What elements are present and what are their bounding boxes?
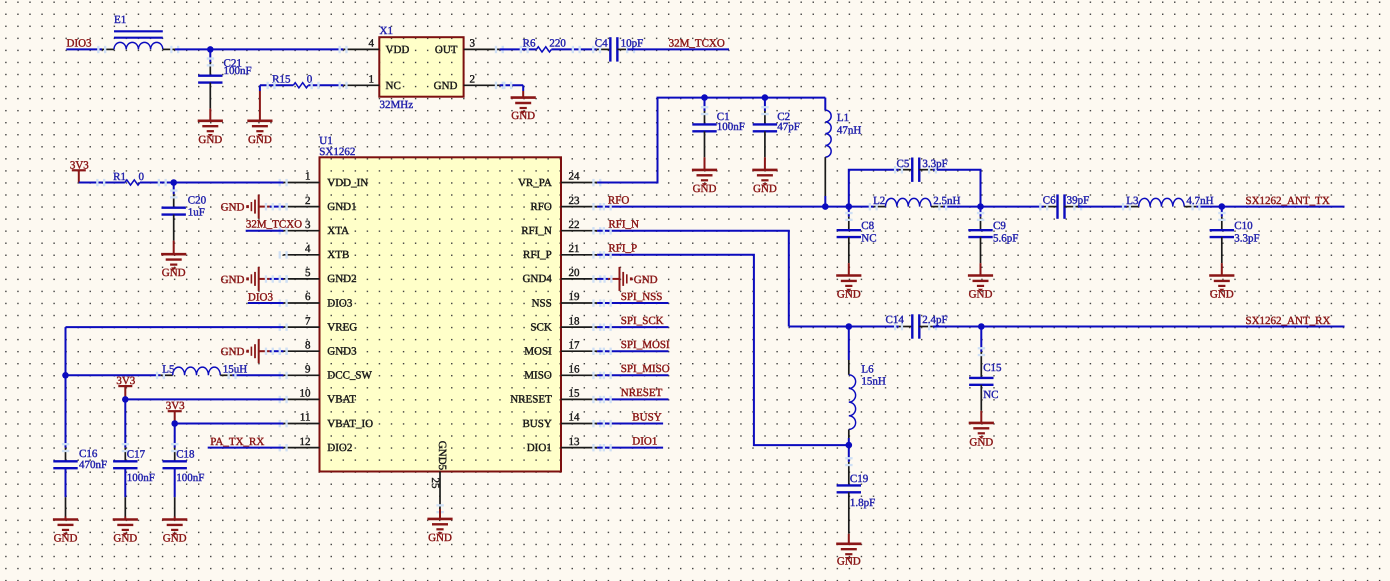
wire bbox=[824, 157, 826, 196]
svg-text:21: 21 bbox=[569, 243, 580, 255]
capacitor C15 bbox=[980, 352, 982, 378]
svg-text:DIO2: DIO2 bbox=[327, 442, 352, 454]
wire BUSY bbox=[597, 423, 663, 425]
ground bbox=[704, 157, 706, 170]
wire bbox=[65, 447, 67, 449]
svg-text:SPI_MOSI: SPI_MOSI bbox=[621, 339, 670, 351]
svg-text:GND5: GND5 bbox=[436, 441, 448, 471]
capacitor C20 bbox=[173, 194, 175, 208]
pin 1 VDD_IN bbox=[283, 182, 319, 184]
wire R15 net right bbox=[308, 84, 343, 86]
wire RFO rail bbox=[597, 206, 873, 208]
junction bbox=[62, 372, 69, 379]
IC U1 body bbox=[320, 157, 562, 471]
svg-text:VBAT: VBAT bbox=[327, 394, 356, 406]
svg-text:SX1262: SX1262 bbox=[319, 146, 355, 158]
wire bbox=[980, 207, 982, 217]
svg-text:XTA: XTA bbox=[327, 225, 349, 237]
junction bbox=[846, 323, 853, 330]
ground bbox=[259, 85, 261, 91]
wire bbox=[1221, 207, 1223, 217]
capacitor C21 bbox=[209, 62, 211, 75]
svg-text:GND: GND bbox=[428, 532, 452, 544]
svg-text:16: 16 bbox=[569, 364, 581, 376]
svg-text:RFI_P: RFI_P bbox=[608, 243, 637, 255]
pin 13 DIO1 bbox=[561, 447, 597, 449]
svg-text:VDD_IN: VDD_IN bbox=[327, 177, 368, 189]
svg-text:22: 22 bbox=[569, 219, 580, 231]
svg-text:SPI_MISO: SPI_MISO bbox=[621, 363, 670, 375]
wire C5 right bbox=[933, 170, 981, 207]
svg-text:L5: L5 bbox=[162, 364, 175, 376]
inductor L3 bbox=[1127, 206, 1139, 208]
svg-text:SX1262_ANT_TX: SX1262_ANT_TX bbox=[1246, 195, 1330, 207]
pin 20 GND4 bbox=[561, 278, 597, 280]
svg-text:L6: L6 bbox=[861, 364, 874, 376]
svg-text:DIO3: DIO3 bbox=[327, 297, 353, 309]
svg-text:VREG: VREG bbox=[327, 321, 357, 333]
wire bbox=[980, 327, 982, 352]
wire 3V3 to R1 bbox=[79, 182, 125, 184]
oscillator X1 bbox=[379, 37, 463, 96]
wire C6 to L3 bbox=[1078, 206, 1127, 208]
svg-text:13: 13 bbox=[569, 436, 581, 448]
svg-text:15: 15 bbox=[569, 388, 581, 400]
svg-text:C16: C16 bbox=[79, 448, 98, 460]
wire VREG rail down bbox=[65, 327, 67, 448]
svg-text:GND: GND bbox=[162, 267, 186, 279]
wire bbox=[175, 48, 343, 50]
svg-text:3.3pF: 3.3pF bbox=[922, 158, 947, 170]
svg-text:BUSY: BUSY bbox=[632, 411, 661, 423]
svg-text:GND: GND bbox=[837, 289, 861, 301]
pin 5 GND2 bbox=[283, 278, 319, 280]
svg-text:C4: C4 bbox=[595, 37, 608, 49]
capacitor C9 bbox=[980, 217, 982, 231]
svg-text:15uH: 15uH bbox=[223, 364, 248, 376]
svg-text:100nF: 100nF bbox=[224, 65, 252, 77]
wire bbox=[209, 49, 211, 62]
wire bbox=[848, 445, 850, 462]
wire 32M_TCXO net bbox=[500, 48, 537, 50]
wire RX rail left bbox=[789, 326, 899, 328]
svg-text:32M_TCXO: 32M_TCXO bbox=[246, 218, 302, 230]
ground (bar style) bbox=[270, 278, 284, 280]
svg-text:1uF: 1uF bbox=[188, 206, 205, 218]
wire NRESET bbox=[597, 398, 668, 400]
svg-text:C6: C6 bbox=[1043, 195, 1056, 207]
svg-text:GND4: GND4 bbox=[522, 273, 552, 285]
wire down to C18 bbox=[174, 424, 176, 448]
svg-text:C10: C10 bbox=[1234, 220, 1253, 232]
svg-text:R6: R6 bbox=[523, 38, 536, 50]
junction bbox=[701, 94, 708, 101]
wire R15 net bbox=[260, 84, 293, 86]
wire RFI_P bbox=[597, 255, 849, 445]
pin 4 XTB bbox=[283, 254, 319, 256]
ground (bar style) bbox=[597, 278, 608, 280]
svg-text:GND: GND bbox=[969, 436, 993, 448]
op-amp U1 SX1262 bbox=[320, 157, 562, 471]
svg-text:4: 4 bbox=[305, 243, 311, 255]
wire RX rail right bbox=[933, 326, 1345, 328]
junction bbox=[846, 203, 853, 210]
ground bbox=[65, 517, 67, 520]
svg-text:GND: GND bbox=[511, 110, 535, 122]
wire R1 to VDD_IN bbox=[140, 182, 284, 184]
wire DCC_SW bbox=[232, 374, 283, 376]
wire bbox=[627, 48, 729, 50]
wire VREG bbox=[66, 326, 284, 328]
svg-text:100nF: 100nF bbox=[176, 472, 204, 484]
svg-text:32MHz: 32MHz bbox=[380, 99, 414, 111]
svg-text:GND: GND bbox=[163, 532, 187, 544]
svg-text:47pF: 47pF bbox=[777, 121, 800, 133]
svg-text:PA_TX_RX: PA_TX_RX bbox=[210, 436, 264, 448]
wire bbox=[848, 207, 850, 217]
oscillator X1 body bbox=[379, 37, 463, 96]
capacitor C16 bbox=[65, 448, 67, 462]
svg-text:GND: GND bbox=[54, 532, 78, 544]
ground (bar style) bbox=[270, 206, 284, 208]
svg-text:GND: GND bbox=[221, 202, 245, 214]
capacitor C10 bbox=[1221, 217, 1223, 231]
junction bbox=[822, 203, 829, 210]
svg-text:10: 10 bbox=[300, 388, 312, 400]
ground bbox=[522, 85, 524, 91]
svg-text:5: 5 bbox=[305, 267, 311, 279]
capacitor C1 bbox=[704, 111, 706, 125]
svg-text:NRESET: NRESET bbox=[510, 394, 552, 406]
svg-text:GND: GND bbox=[837, 556, 861, 568]
capacitor C8 bbox=[848, 217, 850, 231]
junction bbox=[207, 46, 214, 53]
svg-text:VBAT_IO: VBAT_IO bbox=[327, 418, 373, 430]
pin 10 VBAT bbox=[283, 398, 319, 400]
svg-text:C5: C5 bbox=[897, 158, 910, 170]
svg-text:C15: C15 bbox=[983, 362, 1002, 374]
pin 3 OUT bbox=[464, 48, 500, 50]
svg-text:39pF: 39pF bbox=[1067, 195, 1090, 207]
svg-text:3: 3 bbox=[470, 38, 476, 50]
wire bbox=[848, 360, 850, 375]
pin 14 BUSY bbox=[561, 423, 597, 425]
ground bbox=[848, 534, 850, 544]
wire X1 pin2 to gnd bbox=[500, 84, 524, 86]
wire C5 left bbox=[849, 170, 899, 207]
wire to L5 bbox=[66, 374, 161, 376]
svg-text:2.4pF: 2.4pF bbox=[922, 314, 947, 326]
wire 32M_TCXO at XTA bbox=[246, 230, 284, 232]
resistor R1 bbox=[125, 180, 140, 185]
pin 2 GND bbox=[464, 84, 500, 86]
svg-text:11: 11 bbox=[300, 412, 311, 424]
capacitor C2 bbox=[764, 111, 766, 125]
svg-text:2: 2 bbox=[305, 195, 311, 207]
svg-text:NC: NC bbox=[386, 80, 401, 92]
svg-text:5.6pF: 5.6pF bbox=[993, 232, 1018, 244]
inductor L5 bbox=[161, 374, 173, 376]
wire to ANT_TX bbox=[1196, 206, 1344, 208]
svg-text:C18: C18 bbox=[176, 448, 195, 460]
svg-text:10pF: 10pF bbox=[621, 37, 644, 49]
pin 22 RFI_N bbox=[561, 230, 597, 232]
pin 9 DCC_SW bbox=[283, 374, 319, 376]
svg-text:NC: NC bbox=[861, 232, 876, 244]
pin 1 NC bbox=[343, 84, 379, 86]
capacitor C5 bbox=[899, 169, 913, 171]
svg-text:C8: C8 bbox=[861, 220, 874, 232]
svg-text:GND: GND bbox=[113, 532, 137, 544]
wire to L1 bbox=[824, 98, 826, 111]
svg-text:SX1262_ANT_RX: SX1262_ANT_RX bbox=[1246, 315, 1331, 327]
svg-text:8: 8 bbox=[305, 339, 311, 351]
wire to C4 bbox=[551, 48, 596, 50]
svg-text:19: 19 bbox=[569, 291, 581, 303]
svg-text:1: 1 bbox=[305, 171, 311, 183]
wire VBAT_IO bbox=[175, 423, 284, 425]
svg-text:47nH: 47nH bbox=[837, 125, 862, 137]
svg-text:GND3: GND3 bbox=[327, 346, 357, 358]
svg-text:4: 4 bbox=[369, 38, 375, 50]
svg-text:R1: R1 bbox=[113, 171, 126, 183]
svg-text:6: 6 bbox=[305, 291, 311, 303]
pin 8 GND3 bbox=[283, 350, 319, 352]
svg-text:3: 3 bbox=[305, 219, 311, 231]
svg-text:GND2: GND2 bbox=[327, 273, 356, 285]
svg-text:2.5nH: 2.5nH bbox=[933, 195, 960, 207]
svg-text:17: 17 bbox=[569, 339, 581, 351]
svg-text:NC: NC bbox=[983, 389, 998, 401]
ground bbox=[124, 517, 126, 520]
pin 21 RFI_P bbox=[561, 254, 597, 256]
wire bbox=[173, 183, 175, 195]
svg-text:GND: GND bbox=[434, 80, 458, 92]
wire bbox=[66, 48, 102, 50]
ground bbox=[1221, 263, 1223, 275]
capacitor C14 bbox=[899, 326, 913, 328]
svg-text:NSS: NSS bbox=[532, 297, 552, 309]
svg-text:RFI_N: RFI_N bbox=[521, 225, 552, 237]
svg-text:RFO: RFO bbox=[530, 201, 551, 213]
svg-text:DIO3: DIO3 bbox=[67, 38, 93, 50]
junction bbox=[171, 420, 178, 427]
ground bbox=[764, 157, 766, 170]
svg-text:24: 24 bbox=[569, 171, 581, 183]
inductor L6 bbox=[849, 375, 856, 430]
pin 2 GND1 bbox=[283, 206, 319, 208]
svg-text:DIO1: DIO1 bbox=[632, 435, 657, 447]
svg-text:SCK: SCK bbox=[530, 321, 551, 333]
svg-text:0: 0 bbox=[139, 171, 145, 183]
capacitor C17 bbox=[124, 448, 126, 462]
svg-text:VDD: VDD bbox=[386, 44, 410, 56]
ground bbox=[173, 241, 175, 255]
wire SPI_MISO bbox=[597, 374, 668, 376]
svg-text:DIO1: DIO1 bbox=[527, 442, 552, 454]
junction bbox=[846, 442, 853, 449]
svg-text:BUSY: BUSY bbox=[522, 418, 551, 430]
svg-text:SPI_NSS: SPI_NSS bbox=[621, 291, 663, 303]
svg-text:RFI_N: RFI_N bbox=[608, 218, 639, 230]
svg-text:DCC_SW: DCC_SW bbox=[327, 370, 372, 382]
svg-text:220: 220 bbox=[549, 38, 566, 50]
pin 25 GND5 bbox=[439, 472, 441, 510]
inductor L2 bbox=[874, 206, 886, 208]
junction bbox=[1219, 203, 1226, 210]
capacitor C19 bbox=[848, 462, 850, 486]
svg-text:20: 20 bbox=[569, 267, 581, 279]
junction bbox=[170, 179, 177, 186]
wire bbox=[848, 429, 850, 438]
pin 15 NRESET bbox=[561, 398, 597, 400]
svg-text:C20: C20 bbox=[188, 194, 207, 206]
svg-text:15nH: 15nH bbox=[861, 375, 886, 387]
wire VR_PA rail bbox=[597, 98, 825, 183]
svg-text:100nF: 100nF bbox=[717, 121, 745, 133]
svg-text:GND: GND bbox=[753, 183, 777, 195]
pin 4 VDD bbox=[343, 48, 379, 50]
inductor L1 bbox=[825, 110, 831, 157]
wire DIO1 bbox=[597, 447, 663, 449]
svg-text:SPI_SCK: SPI_SCK bbox=[621, 315, 664, 327]
svg-text:23: 23 bbox=[569, 195, 581, 207]
svg-text:GND: GND bbox=[221, 346, 245, 358]
ground bbox=[848, 263, 850, 275]
wire RFI_N bbox=[597, 231, 789, 327]
wire to L6 bbox=[848, 327, 850, 361]
svg-text:C14: C14 bbox=[886, 314, 905, 326]
wire bbox=[704, 98, 706, 111]
resistor R15 bbox=[293, 83, 308, 88]
svg-text:1.8pF: 1.8pF bbox=[850, 497, 875, 509]
svg-text:GND: GND bbox=[221, 274, 245, 286]
resistor R6 bbox=[536, 47, 551, 52]
ground bbox=[980, 411, 982, 423]
pin 12 DIO2 bbox=[283, 447, 319, 449]
wire down to C17 bbox=[124, 399, 126, 447]
capacitor C4 bbox=[597, 48, 611, 50]
svg-text:RFO: RFO bbox=[608, 194, 629, 206]
svg-text:4.7nH: 4.7nH bbox=[1186, 195, 1213, 207]
svg-text:3.3pF: 3.3pF bbox=[1234, 232, 1259, 244]
svg-text:C19: C19 bbox=[850, 473, 869, 485]
svg-text:470nF: 470nF bbox=[79, 459, 107, 471]
svg-text:32M_TCXO: 32M_TCXO bbox=[669, 37, 725, 49]
wire bbox=[764, 98, 766, 111]
pin 6 DIO3 bbox=[283, 302, 319, 304]
wire SPI_NSS bbox=[597, 302, 668, 304]
svg-text:NRESET: NRESET bbox=[621, 387, 663, 399]
svg-text:14: 14 bbox=[569, 412, 581, 424]
junction bbox=[977, 203, 984, 210]
svg-text:MISO: MISO bbox=[524, 370, 552, 382]
svg-text:25: 25 bbox=[429, 478, 441, 490]
wire bbox=[124, 447, 126, 449]
svg-text:L1: L1 bbox=[837, 112, 849, 124]
pin 7 VREG bbox=[283, 326, 319, 328]
wire PA_TX_RX bbox=[208, 447, 284, 449]
svg-text:GND: GND bbox=[248, 134, 272, 146]
pin 24 VR_PA bbox=[561, 182, 597, 184]
svg-text:E1: E1 bbox=[114, 14, 126, 26]
ground (bar style) bbox=[270, 350, 284, 352]
svg-text:2: 2 bbox=[470, 73, 476, 85]
ground bbox=[174, 517, 176, 520]
capacitor C6 bbox=[1044, 206, 1058, 208]
svg-text:GND: GND bbox=[969, 289, 993, 301]
svg-text:18: 18 bbox=[569, 315, 581, 327]
pin 17 MOSI bbox=[561, 350, 597, 352]
svg-text:L2: L2 bbox=[873, 195, 885, 207]
wire bbox=[174, 447, 176, 449]
svg-text:MOSI: MOSI bbox=[524, 346, 552, 358]
wire RFO rail to C6 bbox=[943, 206, 1044, 208]
junction bbox=[122, 396, 129, 403]
ground bbox=[980, 263, 982, 275]
ground bbox=[209, 109, 211, 121]
svg-text:C9: C9 bbox=[993, 220, 1006, 232]
svg-text:1: 1 bbox=[369, 73, 375, 85]
svg-text:12: 12 bbox=[300, 436, 311, 448]
pin 3 XTA bbox=[283, 230, 319, 232]
svg-text:9: 9 bbox=[305, 364, 311, 376]
svg-text:GND: GND bbox=[634, 274, 658, 286]
capacitor C18 bbox=[174, 448, 176, 462]
svg-text:OUT: OUT bbox=[435, 44, 458, 56]
wire SPI_SCK bbox=[597, 326, 668, 328]
junction bbox=[762, 94, 769, 101]
ground bbox=[439, 509, 441, 519]
ferrite bead E1 bbox=[102, 48, 114, 50]
wire DIO3 at pin6 bbox=[248, 302, 284, 304]
svg-text:RFI_P: RFI_P bbox=[523, 249, 552, 261]
wire SPI_MOSI bbox=[597, 350, 668, 352]
wire VBAT bbox=[125, 398, 283, 400]
svg-text:GND: GND bbox=[693, 183, 717, 195]
svg-text:GND: GND bbox=[1210, 289, 1234, 301]
pin 11 VBAT_IO bbox=[283, 423, 319, 425]
svg-text:7: 7 bbox=[305, 315, 311, 327]
svg-text:XTB: XTB bbox=[327, 249, 349, 261]
svg-text:X1: X1 bbox=[380, 25, 393, 37]
svg-text:DIO3: DIO3 bbox=[248, 291, 274, 303]
svg-text:VR_PA: VR_PA bbox=[518, 177, 552, 189]
svg-text:100nF: 100nF bbox=[127, 472, 155, 484]
svg-text:C17: C17 bbox=[127, 448, 146, 460]
svg-text:GND: GND bbox=[198, 134, 222, 146]
svg-text:L3: L3 bbox=[1126, 195, 1139, 207]
pin 23 RFO bbox=[561, 206, 597, 208]
pin 16 MISO bbox=[561, 374, 597, 376]
pin 19 NSS bbox=[561, 302, 597, 304]
svg-text:GND1: GND1 bbox=[327, 201, 356, 213]
pin 18 SCK bbox=[561, 326, 597, 328]
junction bbox=[978, 323, 985, 330]
